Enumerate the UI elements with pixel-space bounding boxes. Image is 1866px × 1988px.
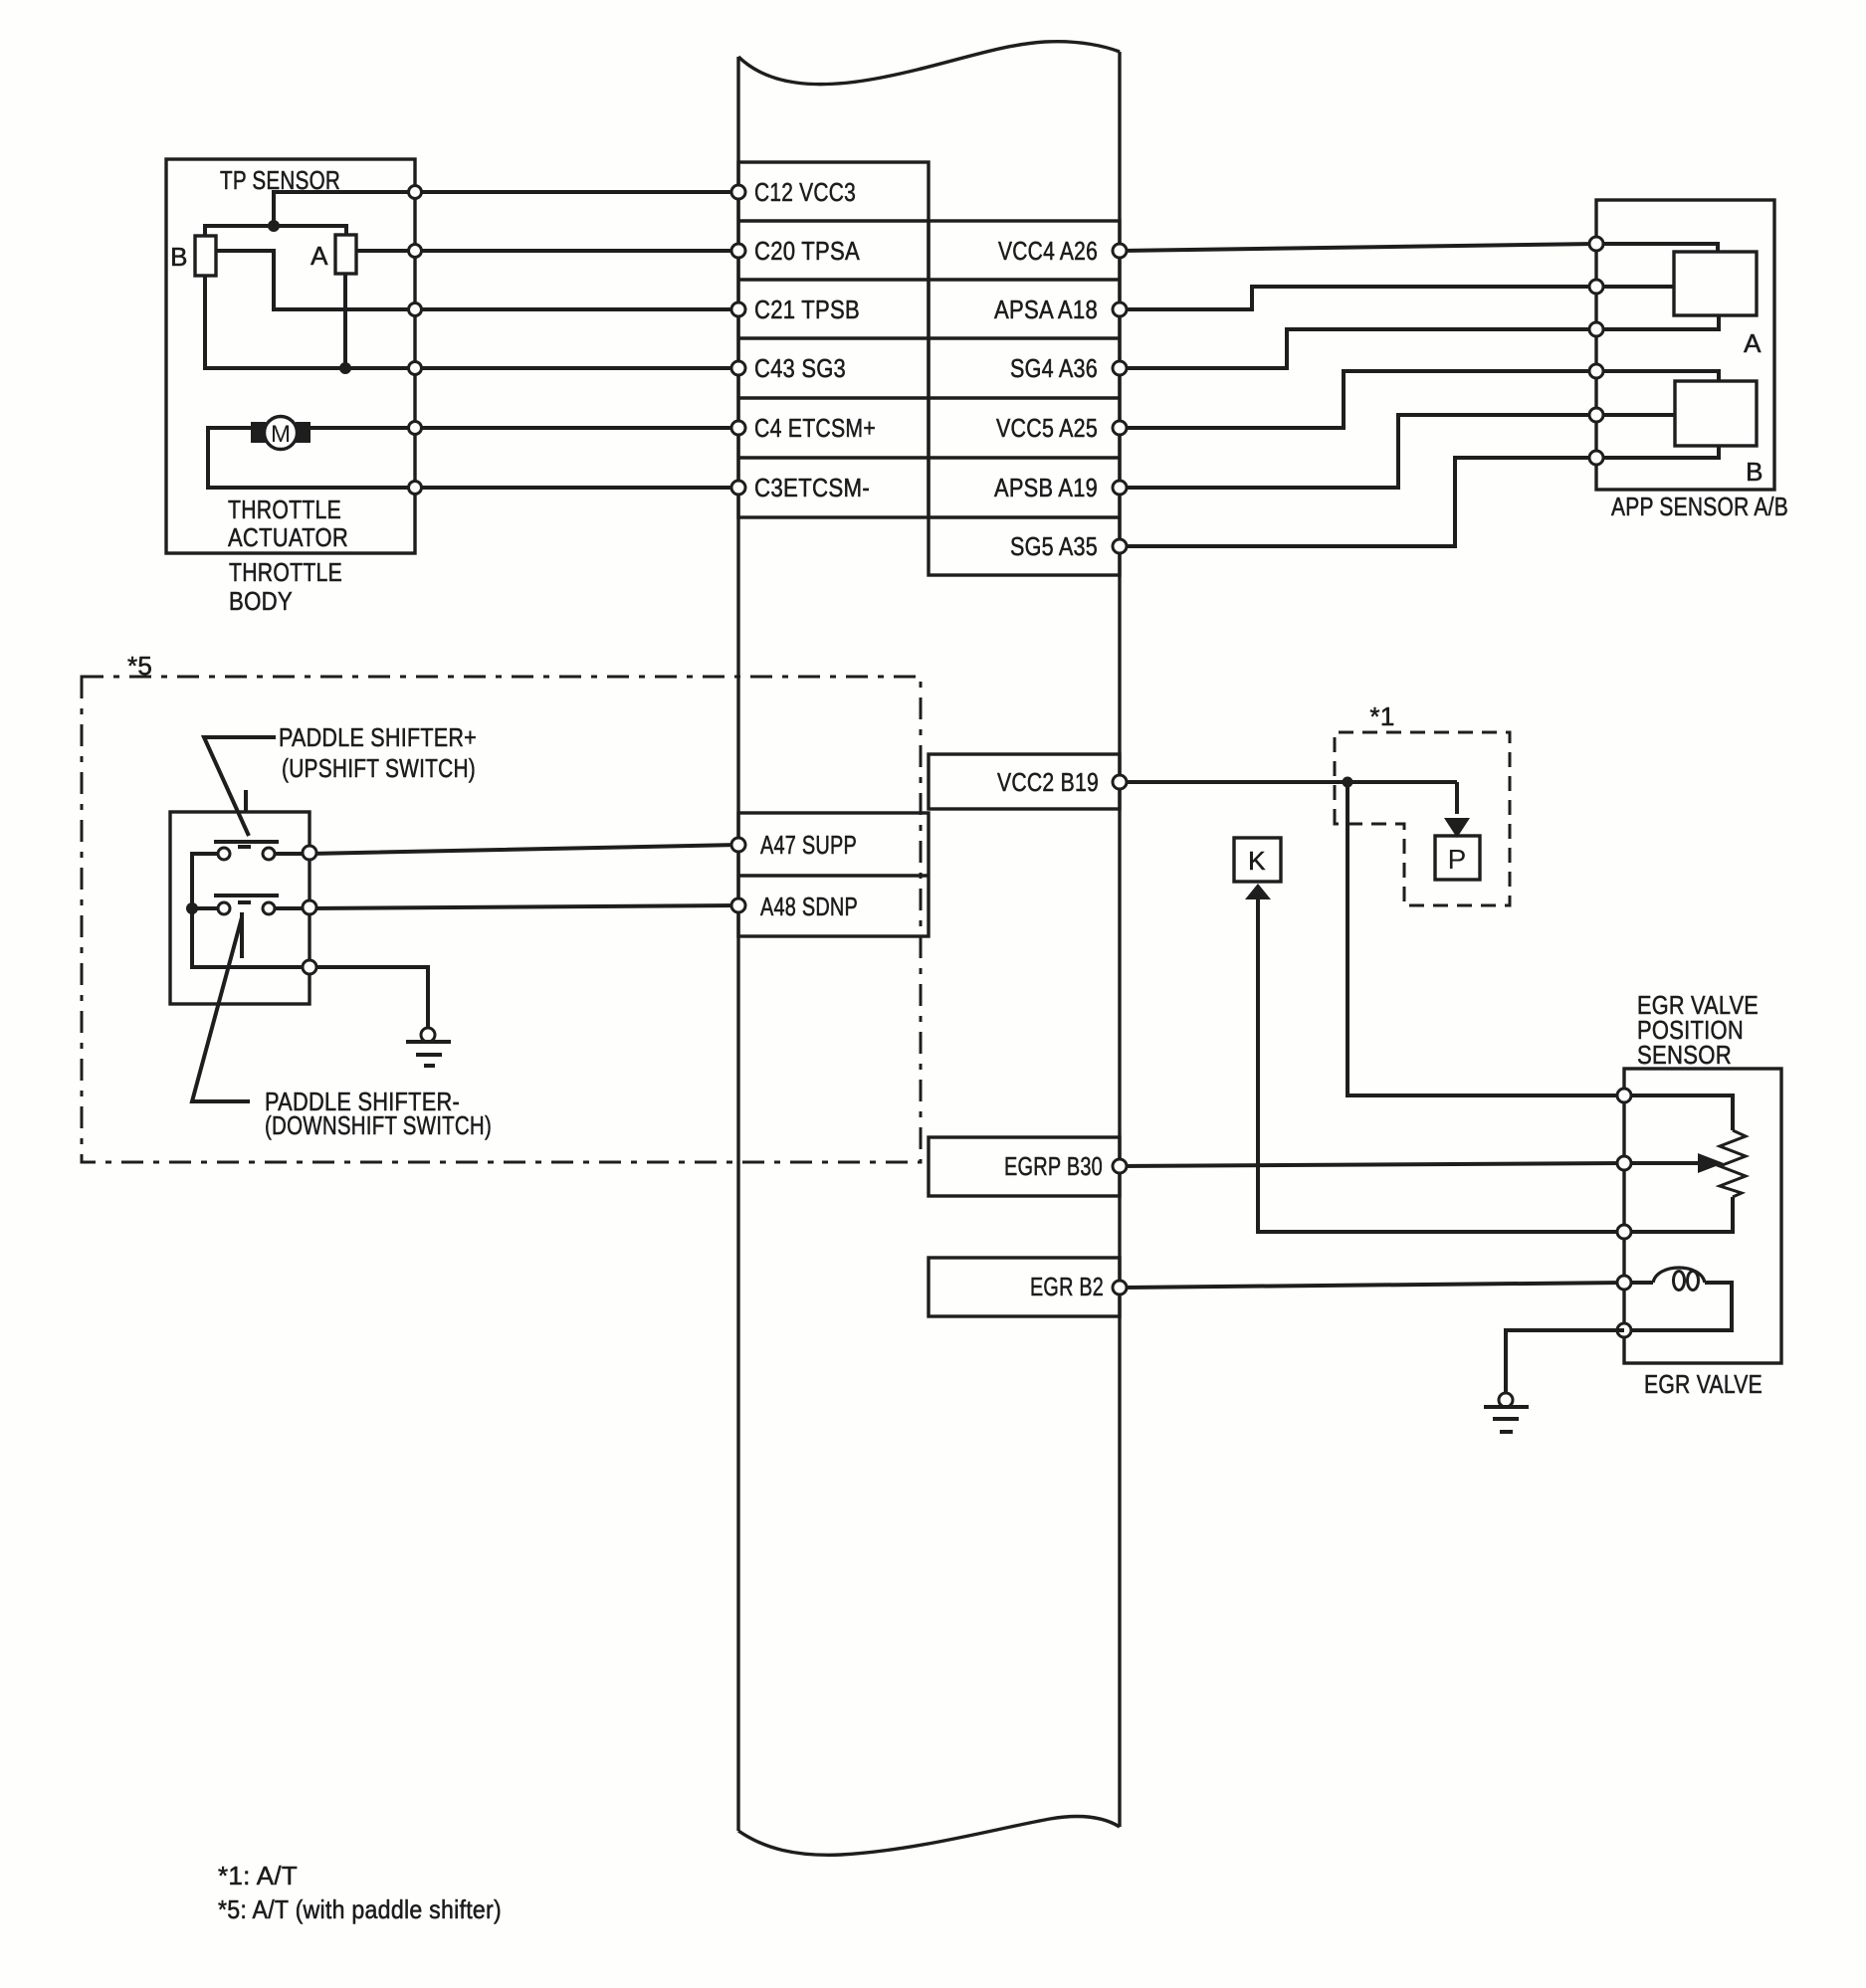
svg-text:A47 SUPP: A47 SUPP — [760, 830, 857, 860]
wire downshift right contact to A48 SDNP — [275, 905, 738, 908]
wire sensor ground lead — [1624, 1197, 1733, 1232]
node VCC2 junction — [1343, 777, 1353, 788]
wire APSA A18 to APP sensor — [1120, 287, 1596, 309]
wire motor- to C3 ETCSM- — [208, 428, 738, 488]
wire APP pin5 to element B left — [1596, 413, 1675, 417]
svg-text:*1: A/T: *1: A/T — [218, 1861, 298, 1890]
svg-text:THROTTLE: THROTTLE — [228, 495, 341, 524]
APP sensor element A — [1674, 252, 1757, 315]
connector circles on switch box edge — [303, 846, 316, 860]
svg-text:VCC5 A25: VCC5 A25 — [996, 413, 1098, 443]
pin circles on ribbon left edge — [731, 185, 745, 199]
wire resistor B ground lead to C43 SG3 — [205, 276, 738, 368]
coil EGR valve solenoid — [1624, 1283, 1732, 1330]
svg-text:EGRP B30: EGRP B30 — [1004, 1151, 1103, 1181]
EGR valve position sensor / EGR valve box — [1624, 1069, 1781, 1363]
ECM ribbon bottom wavy edge — [738, 1817, 1120, 1856]
ECM connector ribbon right edge — [1118, 52, 1121, 1827]
wire EGR valve to ground — [1506, 1330, 1624, 1393]
svg-text:*5: *5 — [127, 651, 152, 681]
dashed option box *1 — [1335, 732, 1510, 905]
svg-text:SG5 A35: SG5 A35 — [1010, 531, 1098, 561]
upshift switch contact bar — [214, 840, 279, 844]
svg-text:C21 TPSB: C21 TPSB — [754, 295, 860, 324]
pin connector circles on throttle body edge — [409, 186, 422, 199]
svg-text:P: P — [1448, 844, 1467, 875]
svg-text:C4 ETCSM+: C4 ETCSM+ — [754, 413, 876, 443]
svg-text:B: B — [1746, 457, 1763, 487]
box K — [1234, 838, 1281, 882]
wire pot supply bus — [205, 226, 346, 236]
APP sensor pin circles — [1589, 237, 1603, 251]
ground (paddle shifter) — [421, 1028, 435, 1042]
pin box A47 SUPP / A48 SDNP — [738, 813, 929, 936]
arrow into K box and wire to EGR position sensor low ref — [1245, 884, 1271, 899]
svg-text:VCC2 B19: VCC2 B19 — [997, 767, 1099, 797]
pin box VCC2 B19 — [929, 754, 1120, 809]
pin box EGRP B30 — [929, 1137, 1120, 1196]
EGR valve pin circles — [1617, 1089, 1631, 1102]
wire EGRP B30 to wiper — [1120, 1163, 1699, 1166]
svg-text:*5: A/T (with paddle shifter): *5: A/T (with paddle shifter) — [218, 1894, 502, 1924]
resistor B (TP sensor) — [195, 236, 216, 276]
ECM ribbon top wavy edge — [738, 42, 1120, 85]
ground (EGR valve) — [1499, 1393, 1513, 1407]
pin box EGR B2 — [929, 1258, 1120, 1316]
wire to ground symbol — [316, 967, 428, 1029]
node TP supply junction — [268, 220, 280, 232]
pin circles on ribbon right edge — [1113, 244, 1127, 258]
svg-text:APSB A19: APSB A19 — [994, 473, 1098, 502]
motor M (throttle actuator) — [265, 417, 298, 450]
leader paddle shifter minus — [192, 912, 250, 1101]
wire APSB A19 to APP sensor — [1120, 415, 1596, 488]
svg-text:THROTTLE: THROTTLE — [229, 557, 342, 587]
svg-text:EGR B2: EGR B2 — [1030, 1272, 1104, 1301]
paddle shifter switch box — [170, 812, 310, 1004]
ECM left pin box stack — [738, 162, 929, 517]
wire C12 VCC3 to TP sensor supply — [274, 192, 738, 226]
resistor A (TP sensor) — [335, 235, 356, 274]
wire VCC2 B19 — [1120, 780, 1457, 784]
svg-text:APSA A18: APSA A18 — [994, 295, 1098, 324]
wire APP pin6 to element B bottom — [1596, 446, 1719, 458]
svg-text:A: A — [1744, 328, 1762, 358]
wire EGR B2 to EGR valve coil — [1120, 1283, 1624, 1288]
APP sensor A/B box — [1596, 200, 1774, 490]
node downshift junction — [186, 902, 198, 914]
wire sensor supply lead — [1624, 1095, 1733, 1130]
svg-text:*1: *1 — [1369, 701, 1394, 731]
downshift switch contact bar — [214, 894, 279, 897]
svg-text:B: B — [170, 242, 188, 272]
wire APP pin3 to element A bottom — [1596, 315, 1719, 329]
wire SG4 A36 to APP sensor — [1120, 329, 1596, 368]
svg-text:SG4 A36: SG4 A36 — [1010, 353, 1098, 383]
svg-text:ACTUATOR: ACTUATOR — [228, 522, 348, 552]
leader paddle shifter plus — [204, 737, 276, 836]
upshift switch contacts — [218, 848, 230, 860]
wire SG5 A35 to APP sensor — [1120, 458, 1596, 546]
svg-text:K: K — [1248, 846, 1266, 876]
wire APP pin1 to element A top — [1596, 244, 1718, 252]
wire TPSA wiper to C20 — [356, 249, 738, 253]
pin circles A47 A48 — [731, 838, 745, 852]
svg-text:BODY: BODY — [229, 586, 293, 616]
ECM connector ribbon left edge — [736, 57, 739, 1831]
dashed option box *5 — [82, 677, 921, 1162]
wire APP pin4 to element B top — [1596, 371, 1719, 381]
svg-text:EGR VALVE: EGR VALVE — [1644, 1369, 1762, 1399]
svg-text:A48 SDNP: A48 SDNP — [760, 892, 858, 921]
svg-text:A: A — [311, 241, 328, 271]
throttle body box — [166, 159, 415, 553]
svg-text:C43 SG3: C43 SG3 — [754, 353, 846, 383]
wire VCC2 to EGR position sensor — [1348, 782, 1624, 1095]
wire downshift left contact — [192, 906, 218, 910]
wire switch common to ground — [192, 908, 310, 967]
downshift switch contacts — [218, 902, 230, 914]
node TP ground junction — [339, 362, 351, 374]
wire motor+ to C4 ETCSM+ — [311, 426, 738, 430]
svg-text:C12 VCC3: C12 VCC3 — [754, 177, 856, 207]
wire upshift left contact — [192, 854, 218, 908]
wire upshift right contact to A47 SUPP — [275, 845, 738, 854]
wire VCC5 A25 to APP sensor — [1120, 371, 1596, 428]
svg-text:C3ETCSM-: C3ETCSM- — [754, 473, 870, 502]
svg-text:SENSOR: SENSOR — [1637, 1040, 1732, 1070]
resistor EGR position sensor (potentiometer) — [1720, 1130, 1746, 1197]
arrow into P box — [1455, 782, 1459, 814]
APP sensor element B — [1675, 381, 1757, 446]
svg-text:(DOWNSHIFT SWITCH): (DOWNSHIFT SWITCH) — [265, 1110, 492, 1140]
wire resistor A ground lead — [343, 274, 347, 368]
wire TPSB wiper to C21 — [216, 251, 738, 309]
svg-text:VCC4 A26: VCC4 A26 — [998, 236, 1098, 266]
wire APP pin2 to element A left — [1596, 285, 1674, 289]
svg-text:(UPSHIFT SWITCH): (UPSHIFT SWITCH) — [282, 753, 476, 783]
box P — [1435, 836, 1480, 880]
wire VCC4 A26 to APP sensor — [1120, 244, 1596, 251]
svg-text:M: M — [271, 421, 291, 448]
ECM right pin box stack — [929, 221, 1120, 575]
svg-text:C20 TPSA: C20 TPSA — [754, 236, 860, 266]
svg-text:APP SENSOR A/B: APP SENSOR A/B — [1611, 492, 1788, 521]
svg-text:PADDLE SHIFTER+: PADDLE SHIFTER+ — [279, 722, 477, 752]
